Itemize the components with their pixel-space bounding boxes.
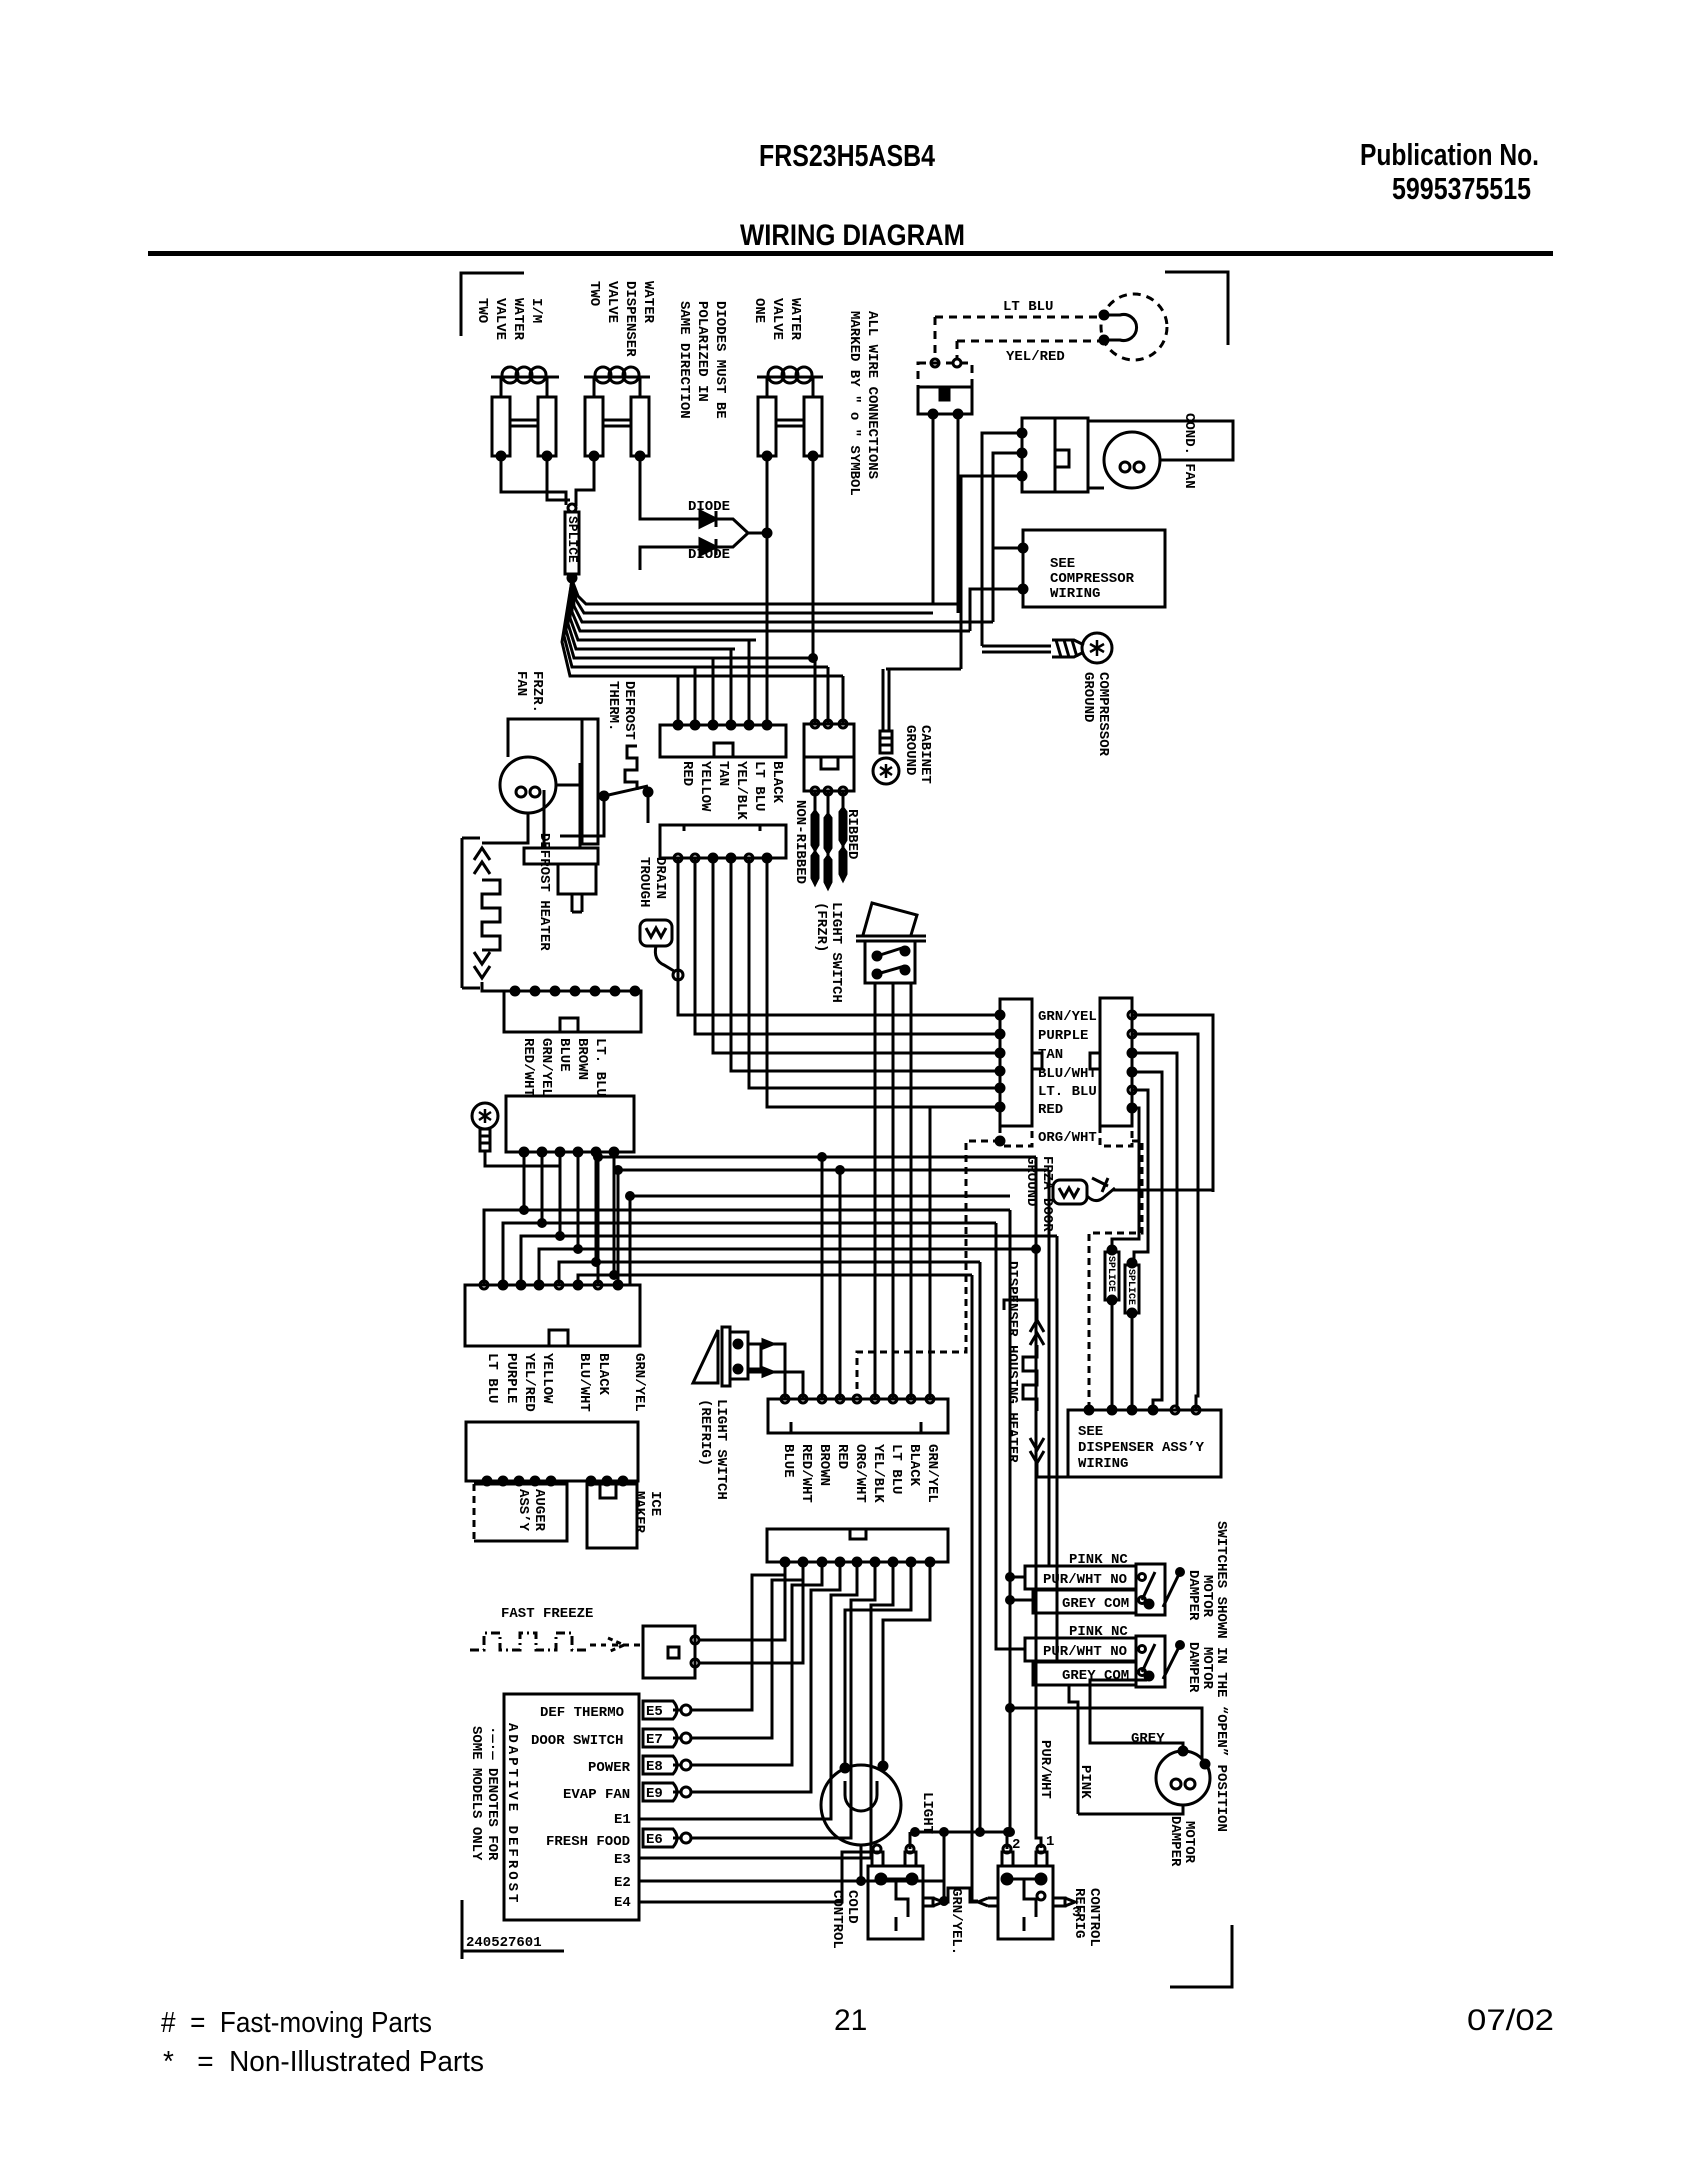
spade terminal E7	[643, 1729, 677, 1747]
svg-text:DAMPER: DAMPER	[1185, 1642, 1201, 1693]
label diodes must be polarized note	[676, 301, 728, 419]
svg-text:RED/WHT: RED/WHT	[520, 1038, 536, 1097]
connector C6	[1100, 998, 1132, 1126]
svg-text:E9: E9	[646, 1786, 663, 1802]
svg-text:# = Fast-moving Parts: # = Fast-moving Parts	[161, 2007, 432, 2039]
ice maker box	[587, 1484, 637, 1548]
svg-text:E1: E1	[614, 1812, 631, 1828]
svg-text:BLACK: BLACK	[906, 1444, 922, 1487]
label all wire connections note	[846, 311, 880, 496]
svg-text:LIGHT SWITCH: LIGHT SWITCH	[828, 902, 844, 1003]
svg-text:I/M: I/M	[528, 298, 544, 323]
E4 wire	[639, 1852, 871, 1902]
svg-text:* = Non-Illustrated Parts: * = Non-Illustrated Parts	[163, 2046, 484, 2078]
cabinet ground wire	[886, 668, 961, 671]
svg-text:REFRIG: REFRIG	[1071, 1888, 1087, 1938]
wire color labels between connectors	[1038, 1009, 1097, 1146]
feed column row2 NO	[996, 1223, 1025, 1649]
connector C7 left	[465, 1285, 640, 1346]
svg-text:AUGER: AUGER	[531, 1489, 547, 1532]
svg-text:Publication No.: Publication No.	[1360, 137, 1539, 172]
svg-text:BROWN: BROWN	[816, 1444, 832, 1486]
label cold control	[829, 1890, 860, 1949]
compressor ground wire	[982, 645, 1051, 648]
part number bracket	[461, 1900, 464, 1959]
damper motor 2 label	[1185, 1642, 1215, 1693]
svg-text:ADAPTIVE DEFROST: ADAPTIVE DEFROST	[504, 1723, 520, 1905]
SECTION:WIRES	[484, 580, 1213, 1905]
light switch refrig wires	[748, 1343, 768, 1346]
svg-text:21: 21	[834, 2004, 867, 2037]
wire heater bottom drop	[482, 982, 504, 991]
relay drop wires	[932, 414, 935, 604]
cold control pins	[872, 1852, 883, 1866]
connector C3	[504, 991, 641, 1032]
cond fan wires	[1088, 421, 1233, 460]
weave horizontal 2	[618, 1169, 1049, 1172]
svg-text:BLUE: BLUE	[556, 1038, 572, 1072]
svg-text:BLU/WHT: BLU/WHT	[576, 1353, 592, 1412]
svg-text:SEE: SEE	[1078, 1424, 1103, 1440]
svg-text:E7: E7	[646, 1732, 663, 1748]
svg-text:GREY COM: GREY COM	[1062, 1596, 1129, 1612]
svg-text:RED: RED	[1038, 1102, 1063, 1118]
damper motor 1 pointer	[1163, 1572, 1180, 1607]
labels under C3	[520, 1038, 608, 1097]
svg-text:DAMPER: DAMPER	[1167, 1816, 1183, 1867]
svg-text:POLARIZED IN: POLARIZED IN	[694, 301, 710, 402]
svg-text:5995375515: 5995375515	[1392, 171, 1531, 206]
label dispenser housing heater	[1004, 1261, 1020, 1463]
non-ribbed pin risers	[815, 658, 843, 724]
frzr switch long drops	[875, 983, 911, 1399]
label light	[919, 1792, 935, 1834]
svg-text:DRAIN: DRAIN	[652, 857, 668, 899]
svg-text:BROWN: BROWN	[574, 1038, 590, 1080]
crisp light filament	[1106, 315, 1137, 341]
corner bracket top-right	[1165, 272, 1228, 345]
damper motor	[1156, 1751, 1210, 1805]
damper switch 2 body	[1136, 1636, 1165, 1687]
corner bracket top-left	[461, 273, 524, 336]
damper switch 1 rows	[1025, 1566, 1136, 1589]
E9 wire	[691, 1562, 840, 1792]
splice B	[1125, 1265, 1139, 1313]
coil water valve 1	[491, 376, 559, 379]
svg-text:CABINET: CABINET	[917, 725, 933, 784]
svg-text:MOTOR: MOTOR	[1181, 1821, 1197, 1864]
heater connection wires	[1004, 1300, 1037, 1320]
svg-text:THERM.: THERM.	[605, 681, 621, 731]
svg-text:E3: E3	[614, 1852, 631, 1868]
light bulb risers	[845, 1562, 911, 1768]
E1 wire	[639, 1562, 857, 1819]
connector C5	[1000, 999, 1032, 1126]
C6 dashed extension	[1100, 1126, 1132, 1146]
svg-text:ORG/WHT: ORG/WHT	[1038, 1130, 1097, 1146]
svg-text:BLU/WHT: BLU/WHT	[1038, 1066, 1097, 1082]
connector C8	[466, 1422, 638, 1481]
refrig light bulb	[821, 1765, 901, 1845]
wire diode2 feed from lower bundle	[640, 547, 655, 570]
svg-text:BLACK: BLACK	[769, 761, 785, 804]
auger wires	[487, 1481, 551, 1484]
svg-text:GREY COM: GREY COM	[1062, 1668, 1129, 1684]
cabinet ground tail	[880, 731, 892, 753]
svg-text:BLACK: BLACK	[595, 1353, 611, 1396]
splice fan wire 3	[572, 580, 993, 622]
wire valve1 right to splice	[547, 456, 570, 500]
defrost thermostat squiggle	[625, 746, 637, 790]
label drain trough	[636, 857, 668, 907]
ground lug mid	[472, 1103, 498, 1129]
diode D1	[652, 518, 700, 521]
labels under C7	[484, 1353, 500, 1403]
damper motor bottom loop	[1078, 1805, 1183, 1814]
splice fan wire 2	[572, 580, 933, 613]
relay dashed housing	[918, 363, 972, 387]
svg-text:1: 1	[1046, 1834, 1054, 1850]
svg-text:(FRZR): (FRZR)	[813, 902, 829, 952]
weave path C4-C7 1	[484, 1152, 524, 1285]
splice A	[1105, 1252, 1119, 1300]
light switch refrig body	[730, 1332, 748, 1379]
svg-text:LIGHT: LIGHT	[919, 1792, 935, 1834]
wire valve2 right to diode1	[640, 456, 652, 519]
svg-text:RED/WHT: RED/WHT	[798, 1444, 814, 1503]
splice	[565, 512, 579, 574]
svg-text:WIRING DIAGRAM: WIRING DIAGRAM	[740, 219, 965, 252]
ground lug wire	[485, 1151, 560, 1166]
svg-text:NON-RIBBED: NON-RIBBED	[792, 800, 808, 884]
frzr fan housing	[508, 719, 582, 757]
svg-text:DIODES MUST BE: DIODES MUST BE	[712, 301, 728, 419]
label damper motor main	[1167, 1816, 1197, 1867]
svg-text:E6: E6	[646, 1832, 663, 1848]
SECTION:FOOTER	[161, 2004, 1554, 2078]
C5 dashed extension	[1000, 1126, 1032, 1146]
SECTION:MIDLEFT	[462, 671, 926, 1166]
label denotes some models	[468, 1726, 500, 1861]
label light switch frzr	[813, 902, 844, 1003]
grn/yel jog wire	[940, 1888, 978, 1902]
svg-text:TROUGH: TROUGH	[636, 857, 652, 907]
frzr fan motor	[500, 757, 556, 813]
auger assy box	[474, 1484, 567, 1541]
board terminal texts	[531, 1705, 631, 1911]
wire valve3 right long drop	[812, 456, 815, 658]
compressor ground hatch	[1052, 640, 1084, 657]
label pur/wht	[1037, 1740, 1053, 1799]
damper motor 1 label	[1185, 1570, 1215, 1621]
cold control right terminal	[923, 1898, 933, 1906]
relay terminals	[929, 410, 937, 418]
label water dispenser valve two	[586, 281, 656, 357]
light switch refrig to CA wires	[768, 1344, 785, 1399]
svg-text:COND. FAN: COND. FAN	[1181, 413, 1197, 489]
coil water valve 3	[757, 376, 823, 379]
label non-ribbed	[792, 800, 808, 884]
connector CB	[767, 1529, 948, 1562]
valve 3 terminals	[763, 452, 771, 460]
feed column grn/yel	[972, 1275, 978, 1901]
svg-text:DEF THERMO: DEF THERMO	[540, 1705, 624, 1721]
svg-text:LT BLU: LT BLU	[484, 1353, 500, 1403]
cond fan connector	[1022, 418, 1088, 492]
E5 wire	[691, 1562, 785, 1710]
damper motor 2 pointer	[1163, 1645, 1180, 1679]
svg-text:GROUND: GROUND	[1080, 672, 1096, 722]
label I/M water valve two	[474, 298, 544, 341]
svg-text:MAKER: MAKER	[631, 1491, 647, 1534]
svg-text:WIRING: WIRING	[1050, 586, 1100, 602]
label refrig control	[1071, 1888, 1102, 1947]
svg-text:MOTOR: MOTOR	[1199, 1647, 1215, 1690]
svg-text:SAME DIRECTION: SAME DIRECTION	[676, 301, 692, 419]
feed column cold area	[979, 1262, 982, 1832]
light switch refrig triangle	[693, 1330, 718, 1383]
svg-text:240527601: 240527601	[466, 1935, 542, 1951]
svg-text:DEFROST HEATER: DEFROST HEATER	[536, 833, 552, 951]
svg-text:WATER: WATER	[510, 298, 526, 341]
svg-text:VALVE: VALVE	[492, 298, 508, 340]
CA riser 822	[821, 1157, 824, 1399]
feed column pink nc1	[1048, 1170, 1051, 1566]
light bulb drop	[860, 1845, 863, 1881]
svg-text:TAN: TAN	[715, 761, 731, 786]
splice fan wire 8	[564, 580, 828, 667]
label frzr fan	[513, 671, 545, 713]
svg-text:ICE: ICE	[647, 1491, 663, 1516]
cond fan motor	[1104, 432, 1160, 488]
svg-text:PURPLE: PURPLE	[503, 1353, 519, 1403]
label adaptive defrost	[504, 1723, 520, 1905]
E2 wire	[639, 1881, 944, 1901]
svg-text:DISPENSER: DISPENSER	[622, 281, 638, 357]
weave path C4-C7 6	[578, 1152, 614, 1285]
light switch frzr roof	[863, 903, 917, 935]
svg-text:DAMPER: DAMPER	[1185, 1570, 1201, 1621]
plug wires up	[543, 790, 546, 848]
valve 2 body	[593, 377, 596, 397]
SECTION:HEADER	[148, 137, 1553, 256]
svg-text:RED: RED	[834, 1444, 850, 1469]
spade terminal E8	[643, 1756, 677, 1774]
refrig control pins	[1002, 1852, 1013, 1866]
see compressor wiring box	[1023, 530, 1165, 607]
right column wires from C6	[1132, 1015, 1213, 1192]
svg-text:SOME MODELS ONLY: SOME MODELS ONLY	[468, 1726, 484, 1861]
svg-text:COMPRESSOR: COMPRESSOR	[1050, 571, 1135, 587]
svg-text:WIRING: WIRING	[1078, 1456, 1128, 1472]
wires cond connector to left verticals	[982, 433, 1022, 646]
label light switch refrig	[697, 1399, 729, 1500]
dashed wire C6 to dispenser	[1089, 1141, 1142, 1410]
crisp light terminals	[1100, 311, 1108, 319]
splice to dispenser wires	[1111, 1300, 1114, 1410]
weave horizontal 1	[598, 1156, 1036, 1159]
feed column row2 COM	[1056, 1236, 1059, 1662]
svg-text:LT BLU: LT BLU	[1003, 299, 1053, 315]
svg-text:WATER: WATER	[787, 298, 803, 341]
label ice maker	[631, 1491, 663, 1534]
splice fan wire 1	[572, 580, 958, 604]
svg-text:SPLICE: SPLICE	[565, 516, 580, 563]
weave path C4-C7 3	[521, 1152, 560, 1285]
label grn/yel	[948, 1888, 964, 1955]
svg-text:SEE: SEE	[1050, 556, 1075, 572]
E6 wire	[691, 1562, 875, 1838]
CA riser 930	[930, 1107, 1000, 1399]
svg-text:YEL/RED: YEL/RED	[521, 1353, 537, 1412]
svg-text:RED: RED	[679, 761, 695, 786]
light switch frzr body	[865, 941, 915, 983]
pink wire	[1069, 1685, 1078, 1814]
svg-text:COLD: COLD	[844, 1890, 860, 1924]
defrost thermostat switch	[600, 792, 608, 800]
svg-text:E4: E4	[614, 1895, 631, 1911]
svg-text:YEL/RED: YEL/RED	[1006, 349, 1065, 365]
label defrost therm	[605, 681, 637, 740]
splice fan wire 9	[562, 580, 843, 676]
dispenser housing heater element	[1030, 1320, 1044, 1345]
svg-text:SWITCHES SHOWN IN THE “OPEN” P: SWITCHES SHOWN IN THE “OPEN” POSITION	[1213, 1521, 1229, 1832]
svg-text:GROUND: GROUND	[902, 725, 918, 775]
svg-text:LT BLU: LT BLU	[751, 761, 767, 811]
svg-text:GREY: GREY	[1131, 1731, 1165, 1747]
cold control box	[868, 1866, 923, 1939]
valve 3 body	[766, 377, 769, 397]
splice fan wire 4	[572, 580, 970, 631]
fast freeze switch wires	[699, 1562, 785, 1640]
svg-text:FRZR.: FRZR.	[529, 671, 545, 713]
spade terminal E9	[643, 1783, 677, 1801]
wire valve1 left to splice	[501, 456, 566, 505]
fast freeze switch	[643, 1626, 695, 1678]
wire YEL/RED dashed	[957, 340, 1104, 343]
frza door ground clip	[1053, 1180, 1087, 1204]
connector C4	[506, 1096, 634, 1152]
weave horizontal extra	[629, 1196, 632, 1285]
feed column row1 COM	[1010, 1599, 1033, 1602]
connector C2	[660, 825, 786, 858]
SECTION:MIDRIGHT	[857, 998, 1221, 1477]
svg-text:YELLOW: YELLOW	[697, 761, 713, 812]
splice fan wire 5	[570, 580, 756, 640]
labels under CA	[780, 1444, 796, 1478]
svg-text:ORG/WHT: ORG/WHT	[852, 1444, 868, 1503]
svg-text:GRN/YEL: GRN/YEL	[924, 1444, 940, 1503]
see dispenser assy wiring box	[1068, 1410, 1221, 1477]
svg-text:GRN/YEL: GRN/YEL	[1038, 1009, 1097, 1025]
wire frzr fan drop	[482, 813, 528, 843]
adaptive defrost board box	[504, 1694, 639, 1920]
svg-text:TWO: TWO	[474, 298, 490, 323]
grey wire	[1090, 1680, 1183, 1751]
damper switch 1 body	[1136, 1564, 1165, 1615]
valve 1 terminals	[497, 452, 505, 460]
svg-text:COMPRESSOR: COMPRESSOR	[1095, 672, 1111, 757]
CA riser 840	[839, 1170, 842, 1399]
label compressor ground	[1080, 672, 1111, 757]
svg-text:(REFRIG): (REFRIG)	[697, 1399, 713, 1466]
label frza door ground	[1023, 1156, 1055, 1232]
damper motor right wire	[1010, 1708, 1202, 1760]
svg-text:PURPLE: PURPLE	[1038, 1028, 1088, 1044]
refrig control top feed	[915, 1831, 1010, 1834]
SECTION:TOPRIGHT	[873, 272, 1233, 784]
label pink	[1077, 1765, 1093, 1799]
svg-text:E8: E8	[646, 1759, 663, 1775]
defrost heater plug cap	[524, 848, 598, 864]
relay body	[918, 387, 972, 414]
frza ground wire	[1112, 1189, 1213, 1192]
weave path C4-C7 2	[503, 1152, 542, 1285]
drain trough symbol	[640, 920, 672, 946]
refrig control box	[998, 1866, 1053, 1939]
svg-text:DISPENSER HOUSING HEATER: DISPENSER HOUSING HEATER	[1004, 1261, 1020, 1463]
svg-text:MARKED BY " o " SYMBOL: MARKED BY " o " SYMBOL	[846, 311, 862, 496]
svg-text:FRESH FOOD: FRESH FOOD	[546, 1834, 630, 1850]
svg-text:DOOR SWITCH: DOOR SWITCH	[531, 1733, 623, 1749]
corner bracket bottom-right	[1170, 1925, 1232, 1987]
wire valve2 left to splice	[576, 456, 594, 506]
connector non-ribbed	[804, 724, 854, 791]
spade terminal E5	[643, 1701, 677, 1719]
svg-text:·—·— DENOTES FOR: ·—·— DENOTES FOR	[484, 1726, 500, 1861]
svg-text:LT. BLU: LT. BLU	[1038, 1084, 1097, 1100]
weave path C4-C7 5	[559, 1152, 596, 1285]
defrost heater element	[461, 838, 464, 988]
wire LT BLU dashed	[935, 316, 1104, 319]
svg-text:LT. BLU: LT. BLU	[592, 1038, 608, 1097]
label defrost heater	[536, 833, 552, 951]
svg-text:SPLICE: SPLICE	[1125, 1269, 1136, 1305]
C2 to C5 wires	[678, 858, 1000, 1015]
refrig control left terminal	[978, 1898, 988, 1906]
svg-text:DEFROST: DEFROST	[621, 681, 637, 740]
svg-text:2: 2	[1012, 1837, 1020, 1853]
dashed drops to relay	[934, 317, 937, 359]
wire valve3 left long drop	[766, 456, 769, 725]
labels under C1	[679, 761, 695, 786]
svg-text:DISPENSER ASS’Y: DISPENSER ASS’Y	[1078, 1440, 1205, 1456]
svg-text:WATER: WATER	[640, 281, 656, 324]
valve 2 terminals	[590, 452, 598, 460]
weave path C4-C7 4	[539, 1152, 578, 1285]
svg-text:ONE: ONE	[751, 298, 767, 323]
spade terminal E6	[643, 1829, 677, 1847]
refrig control right terminal	[1053, 1898, 1065, 1906]
svg-text:GRN/YEL: GRN/YEL	[538, 1038, 554, 1097]
svg-text:FRS23H5ASB4: FRS23H5ASB4	[759, 138, 936, 173]
E3 wire	[639, 1562, 893, 1858]
fast freeze dashed element	[470, 1633, 586, 1650]
svg-text:GRN/YEL.: GRN/YEL.	[948, 1888, 964, 1955]
diode D2	[655, 546, 700, 549]
svg-text:MOTOR: MOTOR	[1199, 1575, 1215, 1618]
svg-text:TWO: TWO	[586, 281, 602, 306]
crisp light bulb dashed circle	[1101, 294, 1167, 360]
svg-text:LT BLU: LT BLU	[888, 1444, 904, 1494]
svg-text:YEL/BLK: YEL/BLK	[870, 1444, 886, 1503]
SECTION:BOTTOM	[462, 1521, 1232, 1987]
feed column pur/wht	[1036, 1157, 1041, 1848]
svg-text:PUR/WHT: PUR/WHT	[1037, 1740, 1053, 1799]
SECTION:TOPLEFT	[461, 273, 880, 725]
svg-text:EVAP FAN: EVAP FAN	[563, 1787, 630, 1803]
svg-text:ASS’Y: ASS’Y	[515, 1489, 531, 1532]
